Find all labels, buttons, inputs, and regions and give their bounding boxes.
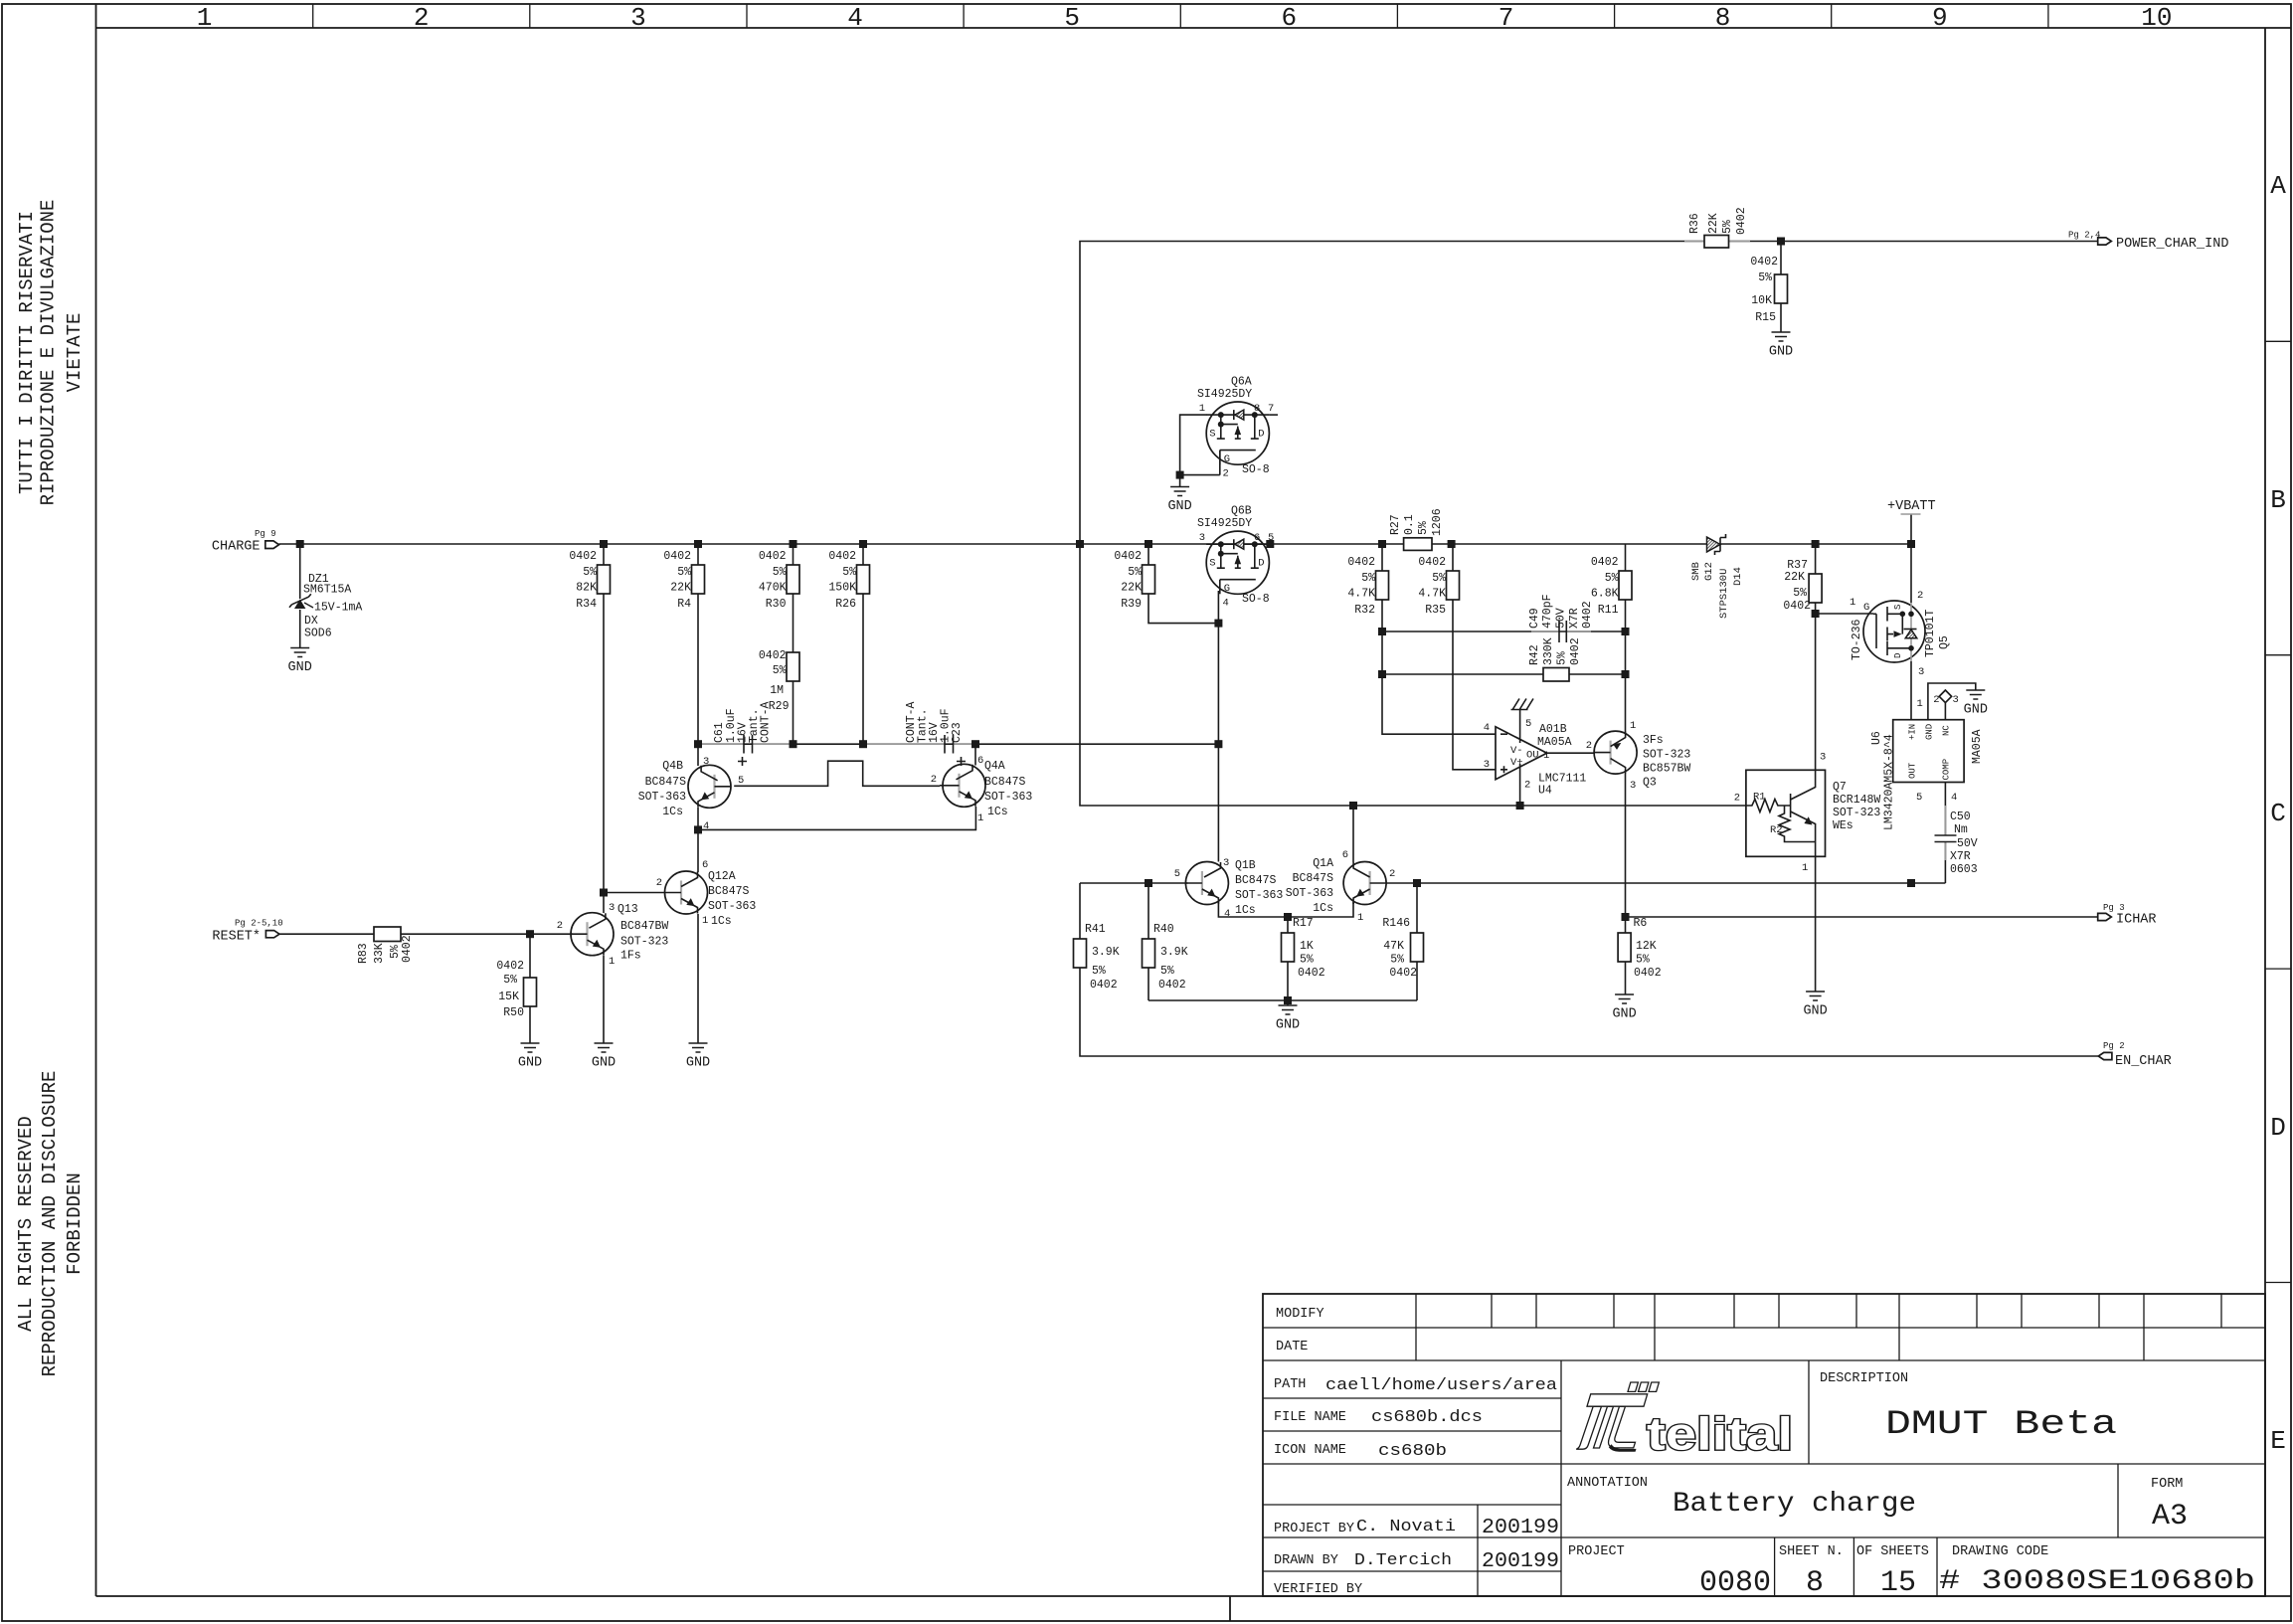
junction POWER_CHAR_IND/R15	[1777, 238, 1785, 246]
gray cap lead C50	[1944, 806, 1946, 860]
resistor R41	[1074, 923, 1120, 992]
inner frame left vertical	[95, 4, 97, 1596]
svg-text:V+: V+	[1510, 757, 1523, 769]
svg-text:GND: GND	[1167, 499, 1191, 514]
wire R42 row	[1382, 673, 1626, 675]
junction bus/DZ1	[296, 540, 304, 548]
svg-text:1: 1	[1199, 403, 1205, 415]
svg-text:15K: 15K	[498, 991, 519, 1003]
wire Q13 collector junction to Q12A base	[604, 892, 665, 894]
svg-text:5%: 5%	[773, 664, 787, 677]
wire R34 column to Q13 collector	[603, 544, 605, 913]
svg-text:2: 2	[1389, 868, 1395, 880]
svg-text:5%: 5%	[1758, 271, 1772, 284]
svg-text:3.9K: 3.9K	[1092, 946, 1120, 959]
svg-text:PROJECT: PROJECT	[1568, 1544, 1625, 1559]
svg-text:MODIFY: MODIFY	[1276, 1307, 1324, 1322]
svg-text:1: 1	[609, 956, 615, 968]
svg-text:cs680b.dcs: cs680b.dcs	[1371, 1408, 1483, 1427]
svg-text:Q7: Q7	[1833, 781, 1847, 794]
transistor Q4A	[931, 755, 1033, 824]
dual P-MOSFET half Q6B	[1197, 505, 1274, 610]
svg-text:82K: 82K	[576, 582, 597, 595]
svg-text:R40: R40	[1153, 923, 1174, 936]
no-connect diamond on U6 pin3	[1939, 690, 1951, 703]
ground R6	[1612, 994, 1636, 1022]
svg-text:SOT-363: SOT-363	[708, 900, 756, 913]
resistor R29	[759, 649, 799, 713]
svg-text:SOT-363: SOT-363	[1286, 887, 1333, 900]
svg-text:2: 2	[1524, 780, 1530, 792]
svg-text:4: 4	[703, 820, 709, 832]
junction Q4B emitter	[694, 825, 702, 833]
transistor Q13	[557, 902, 669, 968]
svg-text:Q1B: Q1B	[1235, 859, 1256, 872]
svg-text:200199: 200199	[1482, 1550, 1559, 1573]
right band row dividers	[2265, 341, 2291, 1282]
wire U6 COMP to C50	[1944, 783, 1946, 836]
ground R15	[1769, 332, 1793, 360]
svg-text:D.Tercich: D.Tercich	[1354, 1551, 1452, 1570]
resistor R146	[1382, 917, 1423, 980]
svg-text:Pg 2: Pg 2	[2103, 1041, 2125, 1051]
gray +VBATT bar	[1901, 513, 1921, 515]
svg-text:2: 2	[931, 774, 937, 786]
svg-text:6: 6	[1254, 532, 1260, 544]
svg-text:22K: 22K	[1707, 213, 1720, 234]
svg-text:5%: 5%	[503, 974, 517, 987]
svg-text:ANNOTATION: ANNOTATION	[1567, 1476, 1648, 1491]
wire Q1B base node y=888 left	[1080, 882, 1188, 884]
svg-text:2: 2	[1734, 793, 1740, 805]
ground R17/R40/R146	[1276, 1005, 1300, 1033]
svg-text:DRAWING CODE: DRAWING CODE	[1952, 1544, 2048, 1559]
svg-text:0402: 0402	[1735, 207, 1748, 235]
svg-text:R83: R83	[357, 943, 370, 964]
svg-text:Pg 9: Pg 9	[255, 529, 276, 539]
svg-text:SOT-363: SOT-363	[638, 791, 686, 804]
svg-text:+IN: +IN	[1908, 724, 1918, 740]
wire Q4B collector leg	[697, 744, 699, 766]
svg-text:8: 8	[1254, 403, 1260, 415]
svg-text:5: 5	[1916, 792, 1922, 804]
svg-text:NC: NC	[1942, 725, 1952, 736]
svg-text:X7R: X7R	[1568, 608, 1581, 629]
junction base/R40	[1145, 879, 1152, 887]
svg-text:0.1: 0.1	[1403, 514, 1416, 535]
svg-text:15V-1mA: 15V-1mA	[314, 602, 362, 615]
wire Q4B/Q4A emitter bus y=834.4	[698, 807, 975, 829]
svg-text:Pg 3: Pg 3	[2103, 903, 2125, 913]
svg-text:R32: R32	[1354, 604, 1375, 617]
svg-text:ALL RIGHTS RESERVED: ALL RIGHTS RESERVED	[15, 1116, 37, 1332]
svg-text:5%: 5%	[1128, 566, 1142, 579]
svg-text:5%: 5%	[1432, 572, 1446, 585]
svg-text:BC857BW: BC857BW	[1643, 763, 1690, 776]
svg-text:WEs: WEs	[1833, 819, 1853, 832]
svg-text:S: S	[1893, 605, 1903, 610]
gray cap lead C61	[702, 743, 790, 745]
wire C49 row	[1382, 631, 1626, 632]
junction bus/R27	[1448, 540, 1456, 548]
svg-text:1: 1	[1850, 597, 1855, 609]
svg-text:BC847S: BC847S	[1235, 874, 1277, 887]
svg-text:DATE: DATE	[1276, 1340, 1308, 1354]
svg-text:6: 6	[1281, 3, 1297, 33]
wire R26 column	[862, 544, 864, 744]
svg-text:SMB: SMB	[1690, 562, 1702, 581]
svg-text:POWER_CHAR_IND: POWER_CHAR_IND	[2116, 237, 2228, 252]
svg-text:0402: 0402	[1634, 967, 1662, 980]
svg-text:COMP: COMP	[1942, 759, 1952, 781]
svg-text:Q4B: Q4B	[662, 760, 683, 773]
junction bus/R30	[790, 540, 797, 548]
junction bus/R26	[859, 540, 867, 548]
wire Q12A emitter to ground	[697, 914, 699, 1043]
svg-text:5%: 5%	[1556, 651, 1569, 665]
resistor R4	[663, 550, 704, 611]
svg-text:1: 1	[977, 812, 983, 824]
svg-text:0402: 0402	[759, 649, 787, 662]
svg-text:VIETATE: VIETATE	[64, 313, 86, 393]
wire R6 leg to ground	[1625, 962, 1627, 994]
svg-text:Q13: Q13	[617, 903, 638, 916]
junction CONT-A/R29	[790, 740, 797, 748]
svg-text:5: 5	[1064, 3, 1080, 33]
wire U6 NC pin to diamond	[1944, 703, 1946, 720]
svg-text:2: 2	[414, 3, 430, 33]
svg-text:G: G	[1224, 583, 1230, 595]
ground U6	[1964, 690, 1988, 718]
wire R50 leg	[529, 934, 531, 1043]
svg-text:DESCRIPTION: DESCRIPTION	[1820, 1371, 1908, 1386]
svg-text:R36: R36	[1688, 213, 1701, 234]
resistor R36	[1688, 207, 1748, 248]
svg-text:1Cs: 1Cs	[662, 806, 683, 818]
svg-text:SOT-323: SOT-323	[620, 936, 668, 949]
svg-text:B: B	[2270, 485, 2286, 515]
wire R15 leg	[1780, 242, 1782, 333]
svg-text:R35: R35	[1425, 604, 1446, 617]
svg-text:G: G	[1863, 602, 1869, 614]
svg-text:0402: 0402	[569, 550, 597, 563]
transistor Q4B	[638, 756, 745, 832]
svg-text:2: 2	[1917, 590, 1923, 602]
junction bus/+VBATT	[1907, 540, 1915, 548]
svg-text:4: 4	[1224, 908, 1230, 920]
svg-text:0402: 0402	[1569, 637, 1582, 665]
wire CHARGE main bus y=547	[279, 543, 1708, 545]
junction CONT-A/R26	[859, 740, 867, 748]
svg-text:1: 1	[1630, 720, 1636, 732]
svg-text:SOT-363: SOT-363	[984, 791, 1032, 804]
svg-text:R4: R4	[677, 598, 691, 611]
junction bus/R39	[1145, 540, 1152, 548]
resistor R17	[1282, 917, 1325, 980]
svg-text:GND: GND	[518, 1056, 542, 1071]
svg-text:1: 1	[1543, 750, 1549, 762]
svg-text:OUT: OUT	[1908, 762, 1918, 779]
wire +VBATT to Q5 and U6 pin1	[1910, 514, 1912, 720]
svg-text:15: 15	[1880, 1566, 1916, 1600]
svg-text:FORBIDDEN: FORBIDDEN	[64, 1173, 86, 1275]
svg-text:CONT-A: CONT-A	[760, 701, 773, 743]
svg-text:5%: 5%	[1361, 572, 1375, 585]
svg-text:200199: 200199	[1482, 1517, 1559, 1539]
wire Q4A collector leg	[974, 744, 976, 765]
svg-text:Pg 2,4: Pg 2,4	[2068, 231, 2100, 241]
svg-text:BC847S: BC847S	[645, 776, 687, 789]
ground R50	[518, 1043, 542, 1071]
capacitor C23	[905, 701, 966, 766]
resistor R27	[1389, 508, 1444, 550]
svg-text:0402: 0402	[1418, 556, 1446, 569]
wire R40/R17/R146 bottom tie	[1148, 999, 1417, 1001]
svg-text:REPRODUCTION AND DISCLOSURE: REPRODUCTION AND DISCLOSURE	[39, 1071, 61, 1377]
svg-text:C50: C50	[1950, 811, 1971, 823]
svg-text:10: 10	[2141, 3, 2172, 33]
svg-text:D: D	[1893, 653, 1903, 658]
svg-text:GND: GND	[288, 660, 312, 675]
junction Q1A collector	[1349, 802, 1357, 810]
svg-text:1206: 1206	[1431, 508, 1444, 536]
svg-text:OF SHEETS: OF SHEETS	[1856, 1544, 1929, 1559]
wire Q6B gate to Q1B collector	[1217, 591, 1219, 862]
svg-text:1: 1	[197, 3, 213, 33]
wire R11 column to Q3 emitter	[1625, 544, 1627, 732]
svg-text:4: 4	[1223, 598, 1229, 610]
capacitor C49	[1528, 594, 1594, 642]
svg-text:4: 4	[1484, 722, 1490, 734]
resistor R11	[1591, 556, 1632, 617]
junction bus/vertical	[1076, 540, 1084, 548]
svg-text:3: 3	[1630, 780, 1636, 792]
svg-text:5%: 5%	[1160, 965, 1174, 978]
svg-text:470K: 470K	[759, 582, 787, 595]
svg-text:GND: GND	[1803, 1004, 1827, 1019]
svg-text:U4: U4	[1538, 785, 1552, 798]
node ICHAR output connector	[2098, 903, 2157, 928]
wire Q3 collector to R6 and ICHAR	[1625, 774, 1627, 934]
svg-text:D14: D14	[1732, 567, 1744, 586]
junction CONT-A/R4	[694, 740, 702, 748]
svg-text:PROJECT BY: PROJECT BY	[1274, 1522, 1354, 1536]
transistor Q12A	[656, 859, 757, 928]
svg-text:5%: 5%	[1092, 965, 1106, 978]
svg-text:4.7K: 4.7K	[1347, 588, 1375, 601]
wire R39 column and gate link	[1148, 544, 1218, 624]
svg-text:Pg 2-5,10: Pg 2-5,10	[235, 919, 283, 929]
svg-text:2: 2	[1586, 740, 1592, 752]
wire R146 leg	[1416, 883, 1418, 1000]
schottky diode D14	[1690, 534, 1744, 619]
svg-text:5: 5	[1525, 718, 1531, 730]
svg-text:1: 1	[1357, 912, 1363, 924]
svg-text:3: 3	[1918, 666, 1924, 678]
wire Q6A drain stub	[1269, 414, 1278, 416]
svg-text:1Cs: 1Cs	[987, 806, 1008, 818]
title block vertical dividers	[1478, 1360, 2118, 1596]
ground Q6A	[1167, 487, 1191, 515]
gray cap lead C23	[867, 743, 971, 745]
svg-text:R1: R1	[1753, 792, 1766, 804]
svg-text:9: 9	[1932, 3, 1948, 33]
svg-text:6: 6	[977, 755, 983, 767]
svg-text:STPS130U: STPS130U	[1718, 569, 1730, 619]
svg-text:Q6B: Q6B	[1231, 505, 1252, 518]
svg-text:TO-236: TO-236	[1851, 619, 1863, 660]
svg-text:SI4925DY: SI4925DY	[1197, 388, 1252, 401]
title block outline	[1263, 1294, 2265, 1596]
svg-text:2: 2	[1223, 468, 1229, 480]
wire RESET* net	[279, 933, 573, 935]
svg-text:SOD6: SOD6	[304, 628, 332, 640]
svg-text:0402: 0402	[401, 935, 414, 963]
svg-text:5%: 5%	[773, 566, 787, 579]
svg-text:R15: R15	[1755, 311, 1776, 324]
svg-text:TP0101T: TP0101T	[1924, 610, 1937, 657]
svg-text:330K: 330K	[1542, 637, 1555, 665]
junction CONT-A/gate	[1214, 740, 1222, 748]
resistor R37	[1783, 559, 1822, 613]
wire bus right of D14	[1720, 543, 1911, 545]
transistor Q1B	[1174, 857, 1284, 920]
svg-text:PATH: PATH	[1274, 1377, 1306, 1392]
gray cap lead C49	[1531, 631, 1591, 632]
svg-text:R27: R27	[1389, 514, 1402, 535]
wire DZ1 leg	[299, 544, 301, 647]
svg-text:7: 7	[1499, 3, 1514, 33]
svg-text:3: 3	[1953, 694, 1959, 706]
svg-text:S: S	[1209, 429, 1215, 441]
svg-text:6.8K: 6.8K	[1591, 588, 1619, 601]
inner frame right vertical	[2264, 28, 2266, 1596]
svg-text:0402: 0402	[759, 550, 787, 563]
svg-text:33K: 33K	[373, 943, 386, 964]
svg-text:SO-8: SO-8	[1242, 463, 1270, 476]
op-amp U4	[1484, 699, 1587, 798]
svg-text:1Cs: 1Cs	[1313, 902, 1333, 915]
svg-text:SM6T15A: SM6T15A	[303, 584, 351, 597]
svg-text:4: 4	[1951, 792, 1957, 804]
resistor R15	[1750, 256, 1787, 324]
svg-text:MA05A: MA05A	[1971, 729, 1984, 764]
svg-text:VERIFIED BY: VERIFIED BY	[1274, 1582, 1362, 1597]
svg-text:Nm: Nm	[1954, 823, 1968, 836]
resistor R42	[1528, 637, 1582, 681]
svg-text:A01B: A01B	[1539, 723, 1567, 736]
wire POWER_CHAR_IND net	[1080, 242, 2098, 807]
junction Q6A source/gate	[1176, 471, 1184, 479]
svg-text:22K: 22K	[1784, 571, 1805, 584]
svg-text:SOT-323: SOT-323	[1833, 807, 1880, 819]
P-MOSFET Q5	[1850, 590, 1951, 678]
svg-text:50V: 50V	[1555, 608, 1568, 629]
wire Q1A collector leg	[1352, 806, 1354, 862]
svg-text:+VBATT: +VBATT	[1887, 499, 1936, 514]
svg-text:ICON NAME: ICON NAME	[1274, 1443, 1346, 1458]
svg-text:R50: R50	[503, 1006, 524, 1019]
ground DZ1	[288, 648, 312, 676]
svg-text:8: 8	[1715, 3, 1731, 33]
svg-text:caell/home/users/area: caell/home/users/area	[1325, 1376, 1557, 1395]
junction base/U6 OUT	[1907, 879, 1915, 887]
svg-text:S: S	[1209, 558, 1215, 570]
junction U4 pin2	[1516, 802, 1524, 810]
svg-text:GND: GND	[592, 1056, 616, 1071]
svg-text:X7R: X7R	[1950, 850, 1971, 863]
junction C49 right	[1622, 628, 1630, 635]
svg-text:R17: R17	[1293, 917, 1314, 930]
wire CONT-A node	[698, 743, 1218, 745]
svg-text:1K: 1K	[1300, 940, 1314, 953]
svg-text:FILE NAME: FILE NAME	[1274, 1410, 1346, 1425]
wire U4 pin2 leg	[1519, 764, 1521, 806]
svg-text:OU: OU	[1526, 750, 1539, 762]
svg-text:# 30080SE10680b: # 30080SE10680b	[1939, 1566, 2255, 1597]
svg-text:47K: 47K	[1383, 940, 1404, 953]
svg-text:MA05A: MA05A	[1537, 736, 1572, 749]
svg-text:FORM: FORM	[2151, 1477, 2183, 1492]
svg-text:5%: 5%	[1793, 587, 1807, 600]
junction base/R146	[1413, 879, 1421, 887]
svg-text:RESET*: RESET*	[212, 930, 261, 945]
svg-text:C23: C23	[951, 722, 964, 743]
svg-text:2: 2	[656, 877, 662, 889]
svg-text:0080: 0080	[1699, 1566, 1771, 1600]
svg-text:4: 4	[847, 3, 863, 33]
svg-text:GND: GND	[1769, 345, 1793, 360]
top band column dividers	[313, 4, 2048, 28]
svg-text:SOT-363: SOT-363	[1235, 889, 1283, 902]
svg-text:5%: 5%	[1605, 572, 1619, 585]
svg-text:GND: GND	[1276, 1018, 1300, 1033]
svg-text:5%: 5%	[1721, 220, 1734, 234]
svg-text:3: 3	[1484, 759, 1490, 771]
IC U6 LM3420	[1870, 690, 1984, 830]
svg-text:BC847S: BC847S	[708, 885, 750, 898]
wire R32 column to U4 pin4	[1382, 544, 1496, 734]
svg-text:R30: R30	[766, 598, 787, 611]
svg-text:R39: R39	[1121, 598, 1142, 611]
svg-text:G: G	[1224, 453, 1230, 465]
svg-text:0402: 0402	[828, 550, 856, 563]
junction bus/R34	[600, 540, 608, 548]
svg-text:CHARGE: CHARGE	[212, 540, 261, 555]
junction ICHAR/R6	[1622, 913, 1630, 921]
junction bus/R32	[1378, 540, 1386, 548]
date row dividers	[1416, 1328, 2144, 1360]
svg-text:GND: GND	[1612, 1007, 1636, 1022]
junction RESET/R50	[526, 930, 534, 938]
svg-text:150K: 150K	[828, 582, 856, 595]
svg-text:BC847S: BC847S	[984, 776, 1026, 789]
wire R41 leg and EN_CHAR net	[1080, 883, 2098, 1056]
svg-text:EN_CHAR: EN_CHAR	[2115, 1054, 2172, 1069]
svg-text:Battery charge: Battery charge	[1673, 1489, 1916, 1520]
svg-text:0402: 0402	[1591, 556, 1619, 569]
svg-text:10K: 10K	[1751, 294, 1772, 307]
wire U4 output to Q3 base	[1547, 752, 1594, 754]
wire C50 bottom leg	[1944, 842, 1946, 884]
svg-text:5: 5	[1268, 532, 1274, 544]
svg-text:5: 5	[738, 775, 744, 787]
junction C49 left	[1378, 628, 1386, 635]
junction R17 bottom	[1284, 996, 1292, 1004]
svg-text:R42: R42	[1528, 644, 1541, 665]
inner frame bottom line	[96, 1595, 2292, 1597]
svg-text:Q5: Q5	[1938, 635, 1951, 649]
